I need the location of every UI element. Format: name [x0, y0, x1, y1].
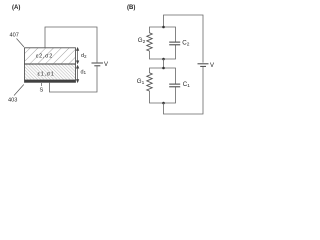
dimension arrow d1	[77, 66, 79, 83]
svg-text:ε1,σ1: ε1,σ1	[38, 72, 55, 78]
box outline	[25, 48, 76, 83]
svg-text:S: S	[40, 88, 44, 94]
layer epsilon1 sigma1	[25, 65, 76, 80]
wire mid (B)	[163, 59, 165, 68]
battery V (A)	[92, 62, 104, 64]
capacitor C1	[169, 83, 180, 85]
svg-text:407: 407	[10, 32, 19, 38]
wire top (A)	[45, 27, 97, 62]
svg-text:V: V	[210, 63, 214, 69]
resistor G2	[147, 33, 152, 51]
bottom RC block frame	[150, 68, 176, 84]
node dot bottom	[162, 102, 165, 105]
svg-text:d1: d1	[81, 69, 87, 75]
svg-text:d2: d2	[81, 53, 87, 59]
battery V (B)	[198, 63, 209, 65]
layer epsilon2 sigma2	[25, 48, 76, 64]
separator line	[25, 63, 76, 65]
leader 407	[17, 39, 25, 48]
wire bottom (A)	[50, 66, 98, 92]
wire top (B)	[164, 15, 204, 63]
leader S	[41, 83, 43, 86]
node dot top	[162, 26, 165, 29]
wire bottom (B)	[164, 67, 204, 114]
bottom electrode band	[25, 80, 76, 83]
capacitor C2	[169, 41, 180, 43]
svg-text:(A): (A)	[12, 5, 20, 11]
svg-text:V: V	[104, 62, 108, 68]
svg-text:403: 403	[8, 98, 17, 104]
leader 403	[14, 85, 24, 96]
node dot mid-lower	[162, 67, 165, 70]
resistor G1	[147, 73, 152, 91]
dimension arrow d2	[77, 48, 79, 64]
top RC block frame	[150, 27, 176, 42]
svg-text:(B): (B)	[127, 5, 135, 11]
node dot mid-upper	[162, 58, 165, 61]
svg-text:ε2,σ2: ε2,σ2	[36, 54, 53, 60]
